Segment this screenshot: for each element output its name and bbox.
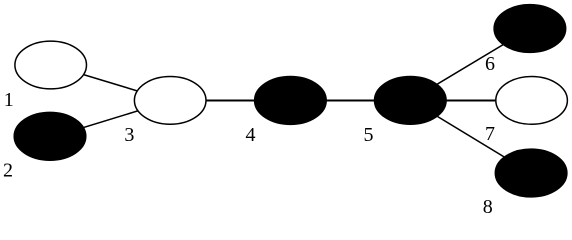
wire edge 5-7 [412, 99, 530, 101]
svg-text:7: 7 [485, 123, 495, 145]
svg-text:3: 3 [124, 124, 134, 146]
node 4 (black ellipse) [255, 77, 327, 125]
node 8 (black ellipse) [495, 149, 567, 197]
wire edge 2-3 [50, 101, 170, 138]
svg-text:1: 1 [4, 89, 14, 111]
wire edge 4-5 [292, 99, 408, 101]
node 6 (black ellipse) [494, 5, 566, 53]
svg-text:8: 8 [483, 196, 493, 218]
wire edge 1-3 [50, 65, 170, 101]
wire edge 5-8 [412, 101, 529, 172]
svg-text:5: 5 [364, 124, 374, 146]
svg-text:4: 4 [246, 124, 256, 146]
node 2 (black ellipse) [14, 112, 86, 160]
wire edge 5-6 [412, 30, 528, 100]
wire edge 3-4 [172, 99, 288, 101]
node 7 (white ellipse) [496, 77, 568, 125]
svg-text:6: 6 [485, 53, 495, 75]
node 1 (white ellipse) [15, 41, 87, 89]
svg-text:2: 2 [3, 159, 13, 181]
node 3 (white ellipse) [134, 77, 206, 125]
node 5 (black ellipse) [375, 77, 447, 125]
